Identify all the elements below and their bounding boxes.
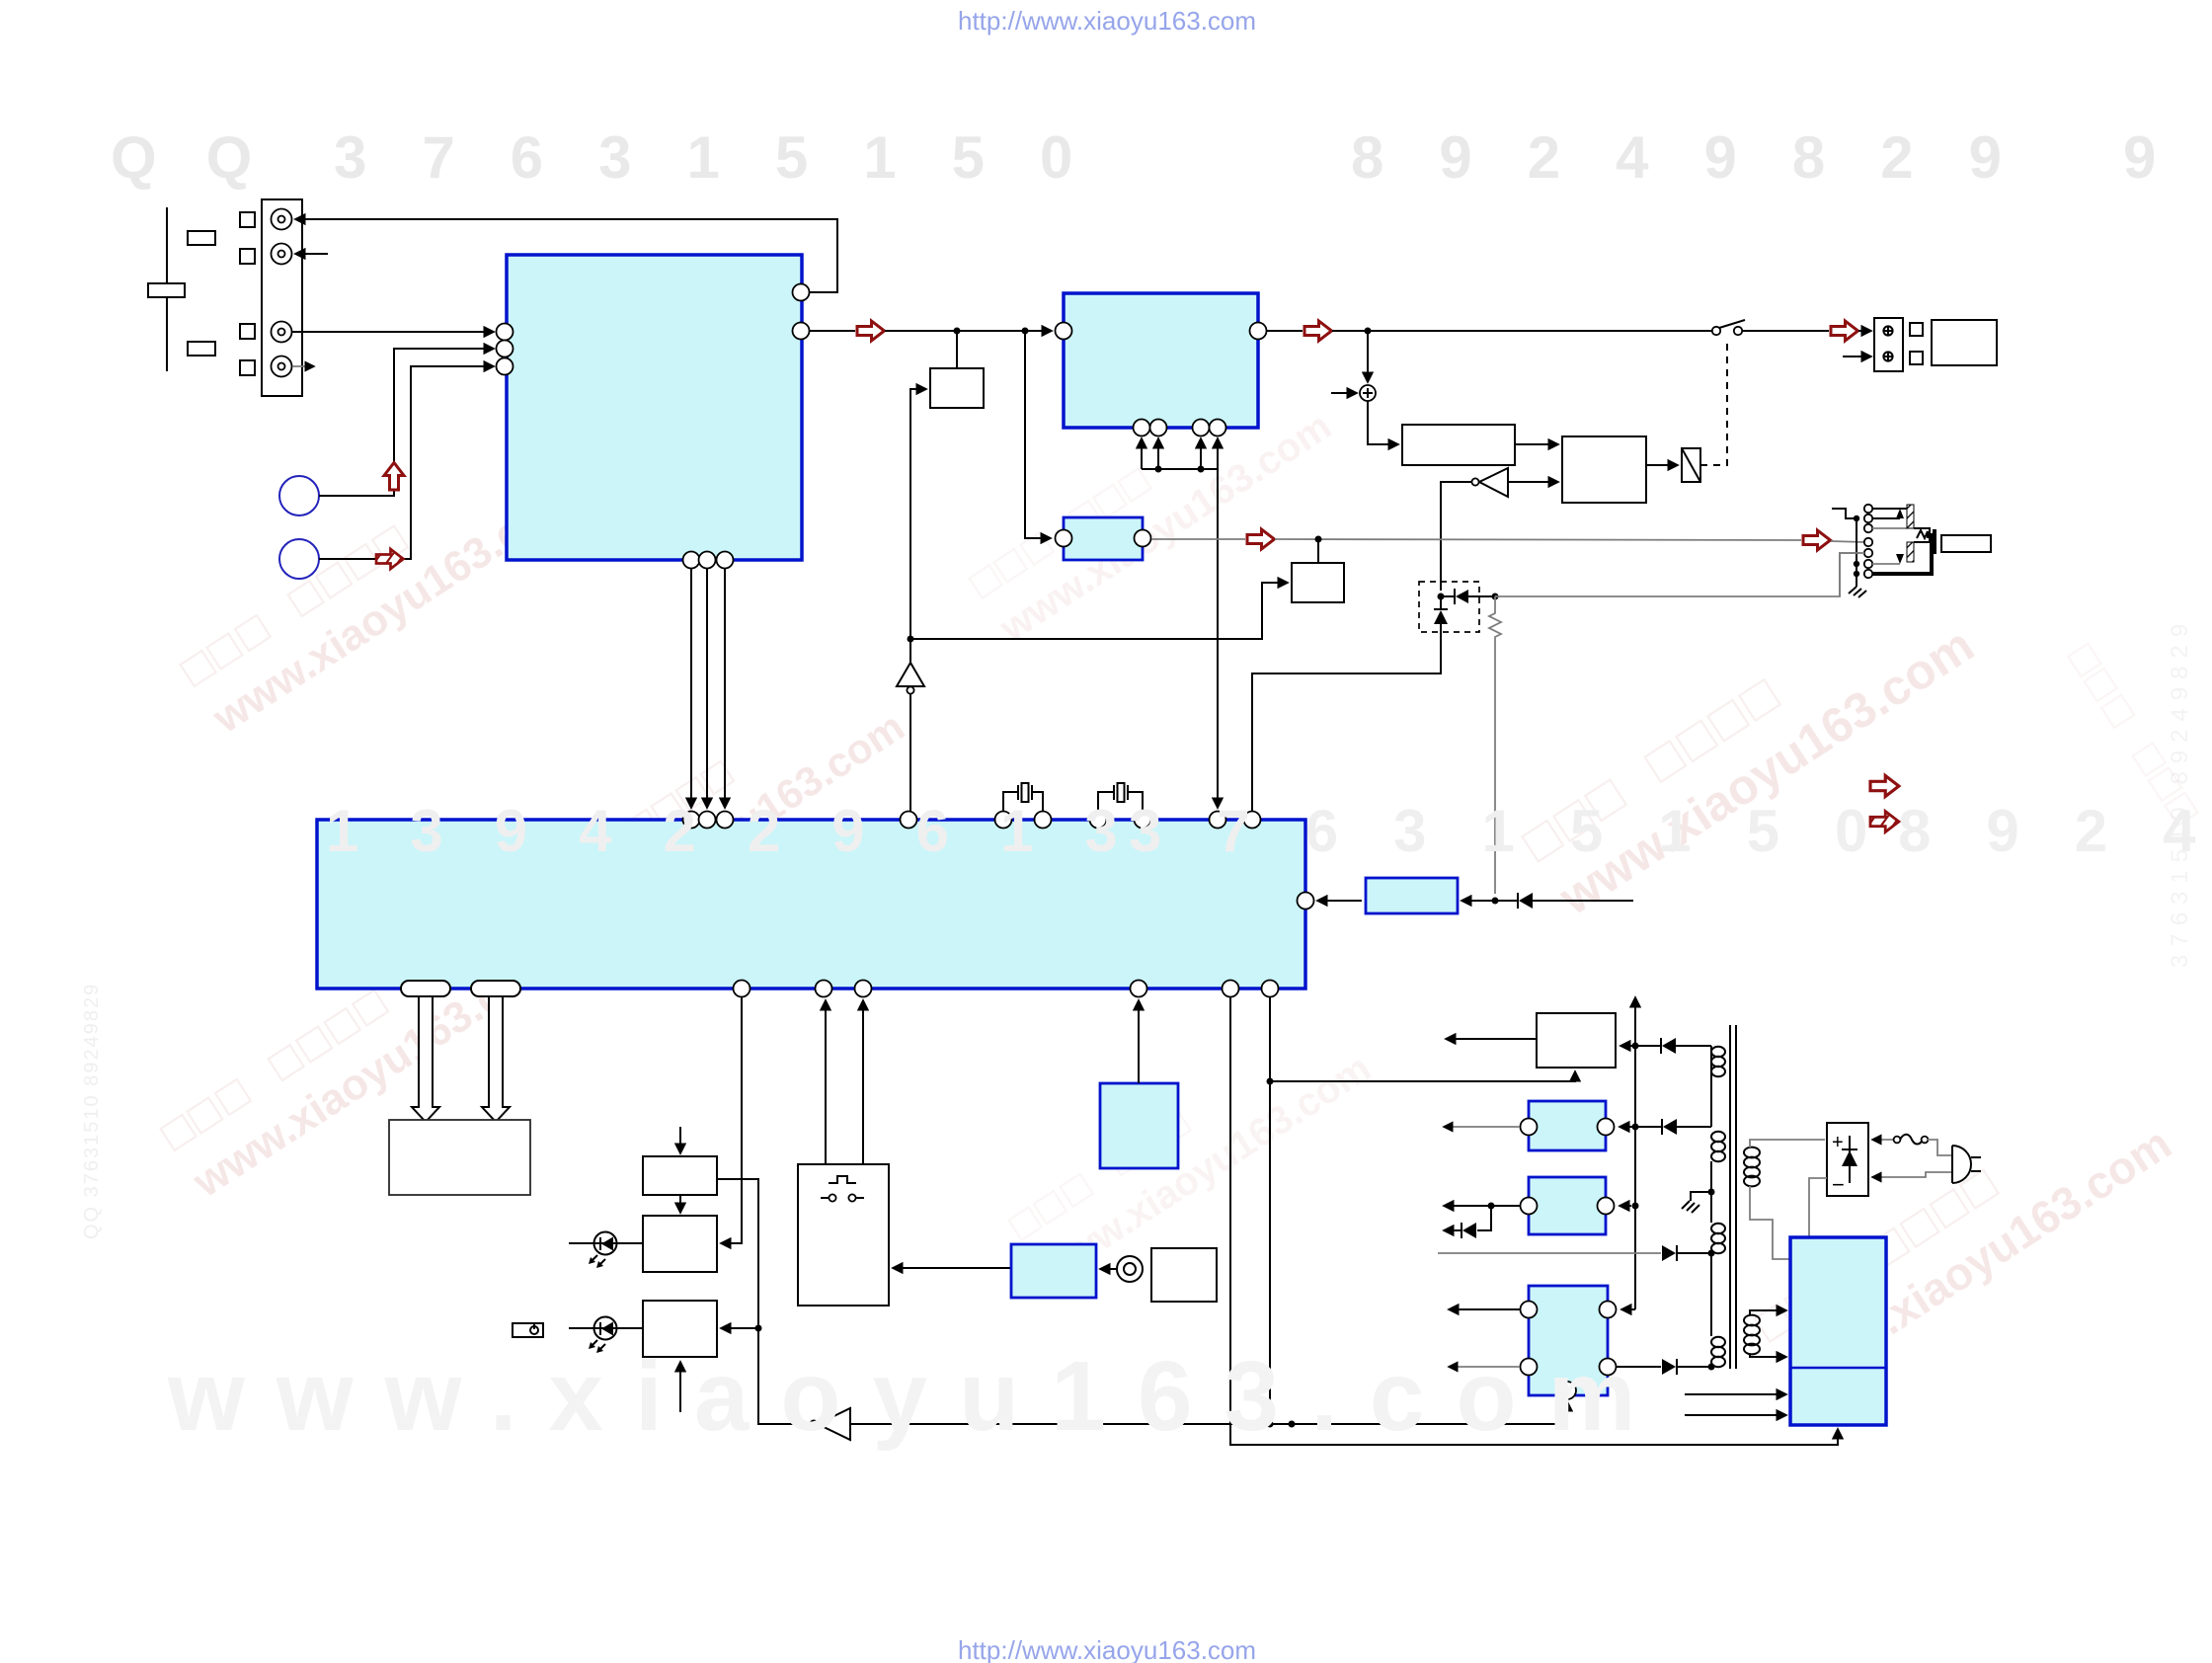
pin U3-L	[1056, 530, 1072, 547]
transformer T2 core	[1730, 1025, 1736, 1369]
ground GND2	[1682, 1192, 1711, 1213]
power switch box SW2	[798, 1164, 889, 1306]
terminal pad P1	[240, 212, 255, 227]
diode D2 (horizontal)	[1441, 589, 1495, 604]
wire CPU B5 to PSU (line2)	[1230, 997, 1838, 1445]
wide arrow W1 to display	[412, 996, 439, 1122]
pin U1-RM	[793, 323, 810, 340]
wire A1 to U2 pin	[885, 330, 1052, 332]
bridge rectifier BR1	[1827, 1123, 1868, 1197]
LED LD1	[569, 1232, 643, 1269]
red arrow A2	[1304, 321, 1332, 341]
junction node n16	[1708, 1250, 1715, 1257]
jack wiring c3	[1872, 527, 1907, 529]
wire C5 output left	[1446, 1038, 1537, 1040]
jack common line	[1856, 516, 1857, 587]
pin U1-L2	[497, 341, 513, 357]
jack contact c4	[1864, 538, 1872, 546]
pin U10-L1	[1521, 1302, 1538, 1318]
jack contact c5	[1864, 549, 1872, 557]
wire n1 down to box A2	[956, 331, 958, 368]
wire P1 top to bridge	[1750, 1140, 1825, 1148]
white box C3	[643, 1301, 717, 1357]
switch SW1	[1712, 320, 1745, 335]
ground GND1	[1849, 587, 1866, 597]
stub arrow into box C1	[679, 1127, 681, 1153]
terminal pad P3	[240, 324, 255, 339]
svg-text:37631510 89249829: 37631510 89249829	[2167, 616, 2193, 968]
svg-text:QQ: QQ	[111, 124, 301, 191]
white box C4	[1151, 1248, 1217, 1302]
pin U4-R1	[1298, 893, 1314, 910]
port U4-P2 (stadium)	[471, 981, 520, 996]
display box DSP1	[389, 1120, 530, 1195]
IC block U6	[1100, 1083, 1178, 1168]
jack wiring c2 with up contact arrow	[1872, 509, 1904, 518]
wire CPU B1 to C2 input	[721, 997, 742, 1243]
pin U4-T10	[1244, 812, 1261, 829]
pin U10-R2	[1600, 1359, 1617, 1376]
pin U8-L	[1521, 1119, 1538, 1136]
wire n6 to box B3	[910, 583, 1288, 639]
pin U4-B5	[1223, 981, 1239, 997]
pin U8-R	[1598, 1119, 1615, 1136]
svg-text:376315150: 376315150	[334, 124, 1128, 191]
junction node n7	[1315, 536, 1322, 543]
jack contact c3	[1864, 524, 1872, 532]
red arrow A3	[1247, 529, 1275, 549]
wire S2 to ground node	[1710, 1161, 1712, 1223]
white box B3	[1292, 563, 1344, 602]
pin U4-B6	[1262, 981, 1279, 997]
jack contact c7	[1864, 570, 1872, 578]
pin U2-B3	[1193, 420, 1210, 436]
pin U4-T3	[717, 812, 734, 829]
wire U6 to CPU B4	[1138, 1000, 1140, 1083]
junction node n13	[1632, 1043, 1639, 1050]
WATERMARKS-BG	[81, 368, 2197, 1401]
wire U8 output left	[1444, 1126, 1520, 1128]
red hatched arrow (mic2 signal)	[372, 549, 405, 571]
pin U4-B3	[855, 981, 872, 997]
wire n12 to power ctrl box	[1270, 1071, 1575, 1081]
pin U1-RT	[793, 284, 810, 301]
diode D7 row	[1438, 1245, 1711, 1261]
jack wiring c6 with down contact arrow	[1872, 554, 1904, 564]
port U4-P1 (stadium)	[401, 981, 450, 996]
summing node S1	[1360, 385, 1376, 401]
red arrow A6	[1831, 321, 1858, 341]
pin U1-B1	[683, 552, 700, 569]
wire n9 into C3	[721, 1327, 758, 1329]
mic input MIC2	[279, 539, 319, 579]
pin U4-T9	[1210, 812, 1226, 829]
wire switch to A6	[1742, 330, 1829, 332]
wire U2 bus down to CPU pin	[1217, 469, 1219, 808]
jack wiring c5 return	[1840, 553, 1864, 596]
diode D6	[1635, 1119, 1711, 1135]
wire SW2 to CPU B3	[862, 1000, 864, 1164]
wire AC into bridge top	[1872, 1139, 1894, 1141]
grey wire A3 to A5	[1275, 539, 1801, 540]
svg-text:http://www.xiaoyu163.com: http://www.xiaoyu163.com	[958, 1635, 1256, 1663]
pin U9-L	[1521, 1198, 1538, 1215]
wire A2 to switch	[1332, 330, 1712, 332]
wire U10 output L1	[1449, 1308, 1520, 1310]
jack contact c1	[1864, 505, 1872, 513]
wire into CPU right pin	[1317, 900, 1362, 902]
wire +B stub up	[1634, 997, 1636, 1046]
dashed box D1 (photocoupler)	[1419, 582, 1479, 632]
wire U1-B1 to CPU	[690, 569, 692, 808]
junction node n1	[954, 328, 961, 335]
junction node n2	[1022, 328, 1029, 335]
junction dot jc3	[1854, 571, 1859, 577]
wire input U11 lower 2	[1685, 1414, 1786, 1416]
winding S3	[1711, 1224, 1725, 1253]
IC block U3 (small DSP)	[1064, 517, 1143, 560]
wire S3 to S4 link	[1710, 1253, 1712, 1336]
pin U4-T5	[995, 812, 1012, 829]
wire summing to box B1	[1368, 401, 1398, 444]
junction node n3	[1365, 328, 1372, 335]
wire buffer node to box A2 input	[910, 389, 926, 639]
wide arrow W2 to display	[482, 996, 510, 1122]
power control box C5	[1537, 1013, 1616, 1068]
white box C1	[643, 1156, 717, 1195]
junction node n14	[1632, 1124, 1639, 1131]
antenna element E1	[188, 231, 215, 245]
red arrow A1	[857, 321, 885, 341]
wire n7 into box B3 top	[1317, 539, 1319, 563]
wire U2-R out	[1267, 330, 1303, 332]
diode D8 row	[1617, 1359, 1711, 1375]
wire bus arrow into U10-R1	[1621, 1308, 1635, 1310]
winding S4	[1711, 1337, 1725, 1367]
jack tip wire c7 (thick)	[1872, 533, 1932, 574]
wire C1 right to C3 input and inverter G3	[717, 1179, 811, 1424]
fuse F1	[1894, 1135, 1929, 1145]
pin U10-L2	[1521, 1359, 1538, 1376]
diode D3 (vertical)	[1434, 596, 1448, 624]
wire U1-B2 to CPU	[706, 569, 708, 808]
grey wire A5 into jack	[1831, 541, 1864, 542]
wire stub into summing node	[1331, 392, 1357, 394]
jack wiring c1	[1872, 508, 1907, 510]
pin U4-B1	[734, 981, 750, 997]
wire SW2 to CPU B2	[825, 1000, 827, 1164]
IC block U11 (switching PSU)	[1790, 1237, 1886, 1425]
diode D9 branch	[1444, 1206, 1491, 1238]
terminal pad P5	[1910, 323, 1923, 336]
pin U9-R	[1598, 1198, 1615, 1215]
winding P2	[1744, 1315, 1760, 1355]
wire input U11 lower 1	[1685, 1393, 1786, 1395]
diode D4	[1495, 893, 1633, 909]
headphone jack J2	[1864, 505, 1872, 578]
svg-text:http://www.xiaoyu163.com: http://www.xiaoyu163.com	[958, 6, 1256, 36]
IC block U10 (audio power amp)	[1529, 1286, 1608, 1395]
white box A2	[930, 368, 984, 408]
pin U10-R1	[1600, 1302, 1617, 1318]
junction node n15	[1708, 1189, 1715, 1196]
wire MIC1 to block1 pin L2	[319, 349, 494, 496]
IC block U7	[1011, 1244, 1096, 1298]
mic input MIC1	[279, 476, 319, 515]
pin U2-L	[1056, 323, 1072, 340]
pin U4-B2	[816, 981, 832, 997]
junction node n12	[1267, 1078, 1274, 1085]
remote sensor RS1	[1117, 1256, 1143, 1282]
jack spring mark	[1917, 530, 1928, 538]
grey wire U3 to headphone jack	[1151, 538, 1245, 540]
junction node n10	[1267, 1421, 1274, 1428]
pin U1-B2	[699, 552, 716, 569]
wire S1 link	[1710, 1046, 1712, 1127]
IC block U9 (regulator)	[1529, 1177, 1606, 1234]
pin U4-T2	[699, 812, 716, 829]
wire C1 to C2	[679, 1195, 681, 1213]
wire block U7 to SW2	[893, 1267, 1011, 1269]
wire CPU B6 down	[1269, 997, 1271, 1424]
red arrow up (mic1 signal)	[384, 463, 404, 491]
AC plug PL2	[1872, 1140, 1981, 1183]
pin U4-B4	[1131, 981, 1147, 997]
wire D3 to CPU pin via bend	[1252, 624, 1441, 811]
winding S2	[1711, 1132, 1725, 1161]
jack contact c6	[1864, 560, 1872, 568]
IC block U1 (tuner/front-end)	[507, 255, 802, 560]
wire n2 down to U3	[1025, 331, 1051, 538]
wire U2 bottom bus	[1142, 438, 1218, 473]
svg-text:376315150: 376315150	[1129, 798, 1923, 864]
terminal pad P6	[1910, 352, 1923, 364]
plug body PL1	[1941, 535, 1991, 552]
LED LD2 (power)	[569, 1317, 643, 1354]
pin U4-T4	[901, 812, 917, 829]
pin U2-B2	[1150, 420, 1167, 436]
wire P2 top to U11	[1750, 1310, 1786, 1315]
wire U1-B3 to CPU	[724, 569, 726, 808]
junction dot jc2	[1854, 561, 1859, 567]
wire RS1 to U7	[1100, 1268, 1117, 1270]
pin U1-B3	[717, 552, 734, 569]
power key icon	[513, 1323, 543, 1337]
pin U4-T1	[683, 812, 700, 829]
winding S1 (secondary)	[1711, 1047, 1725, 1076]
buffer G2 (vertical)	[897, 639, 924, 811]
junction node n4	[1438, 594, 1445, 600]
wire A6 into speaker terminal	[1858, 330, 1871, 332]
wire U9 output left	[1444, 1205, 1520, 1207]
pin U4-T6	[1035, 812, 1052, 829]
wire B2 to relay	[1646, 464, 1678, 466]
wire bus to U9-R	[1619, 1205, 1631, 1207]
wire G3 output to PSU block (line1)	[850, 1401, 1567, 1424]
stub arrow into box C3 bottom	[679, 1362, 681, 1412]
IC block U5 (reset)	[1366, 878, 1458, 913]
IC block U8 (regulator)	[1529, 1101, 1606, 1150]
antenna element E2	[188, 342, 215, 356]
junction dot jc1	[1854, 515, 1859, 521]
CPU block U4 (system micro-controller)	[317, 820, 1305, 989]
wire n14 to U8	[1619, 1126, 1635, 1128]
connector J1 (antenna/audio jack strip)	[262, 199, 302, 396]
relay K1	[1682, 448, 1700, 482]
pin U10-B	[1558, 1382, 1576, 1399]
svg-text:9: 9	[2123, 124, 2156, 191]
inverter G3	[810, 1408, 850, 1440]
pin U3-R	[1135, 530, 1151, 547]
pin U2-B4	[1210, 420, 1226, 436]
grey return wire jack to D2 node	[1495, 553, 1860, 596]
wire node to C5	[1620, 1045, 1635, 1047]
red arrow A5	[1803, 530, 1831, 550]
plug tip bar	[1933, 529, 1936, 554]
jack body hatched lower	[1907, 542, 1914, 562]
svg-text:−: −	[1832, 1172, 1845, 1197]
inverter G1	[1441, 468, 1558, 591]
terminal pad P2	[240, 249, 255, 264]
pin U1-L3	[497, 358, 513, 375]
svg-text:89249829: 89249829	[1351, 124, 2057, 191]
wire n3 down to summing node	[1367, 331, 1369, 382]
junction node n8	[1492, 898, 1499, 905]
dashed link relay to switch	[1700, 339, 1727, 465]
legend hatched red arrow	[1866, 812, 1901, 834]
IC block U2 (DSP)	[1064, 293, 1258, 428]
svg-text:+: +	[1832, 1132, 1844, 1153]
wire jack3 to block1 pin L1	[292, 331, 494, 333]
svg-text:1394229613: 1394229613	[326, 798, 1169, 864]
speaker terminal block T1	[1874, 318, 1903, 371]
jack body hatched upper	[1907, 505, 1914, 528]
svg-text:QQ 37631510 89249829: QQ 37631510 89249829	[81, 983, 103, 1239]
wire P1 bottom to U11	[1750, 1186, 1790, 1259]
jack barrel	[1914, 528, 1930, 542]
WATERMARKS-FG	[111, 124, 2156, 191]
pin U4-T8	[1135, 812, 1151, 829]
junction node n19	[1708, 1364, 1715, 1371]
junction node n18	[1632, 1203, 1639, 1210]
wire jc1 stub	[1832, 509, 1856, 518]
antenna ANT1	[148, 207, 185, 371]
white box B2	[1562, 436, 1646, 503]
junction node n6	[908, 636, 914, 643]
pin U2-R	[1250, 323, 1267, 340]
bus line n13-n14-down	[1634, 1046, 1636, 1309]
junction node n5	[1492, 594, 1499, 600]
svg-text:892498: 892498	[1898, 798, 2212, 864]
svg-text:www.xiaoyu163.com: www.xiaoyu163.com	[167, 1341, 1667, 1452]
wire U10 output L2	[1449, 1366, 1520, 1368]
legend red arrow	[1870, 776, 1899, 797]
junction node n17	[1488, 1203, 1495, 1210]
speaker box SP1	[1932, 320, 1997, 365]
pin U2-B1	[1134, 420, 1150, 436]
wire stub into jack 2	[295, 253, 328, 255]
pin U4-T7	[1090, 812, 1107, 829]
junction node n11	[1289, 1421, 1296, 1428]
wire B1 to B2	[1515, 443, 1558, 445]
terminal pad P4	[240, 360, 255, 375]
crystal X2	[1098, 783, 1143, 812]
wire into terminal lower	[1843, 356, 1871, 357]
resistor R1	[1489, 596, 1501, 894]
wire node to U5	[1461, 900, 1495, 902]
pin U1-L1	[497, 324, 513, 341]
wire P2 bottom to U11	[1750, 1354, 1786, 1357]
jack contact c2	[1864, 515, 1872, 522]
wire stub out of jack 4	[292, 365, 314, 367]
wire block1 out to antenna jack	[295, 219, 837, 292]
crystal X1	[1003, 783, 1043, 812]
wire MIC2 to block1 pin L3	[319, 366, 494, 559]
white box C2	[643, 1216, 717, 1272]
wire bridge minus to U11 top	[1809, 1178, 1827, 1237]
winding P1 (primary)	[1744, 1148, 1760, 1187]
white box B1	[1402, 425, 1515, 465]
junction node n9	[755, 1325, 762, 1332]
diode D5	[1635, 1038, 1711, 1054]
wire U1-RM to U2 (audio signal)	[810, 330, 855, 332]
